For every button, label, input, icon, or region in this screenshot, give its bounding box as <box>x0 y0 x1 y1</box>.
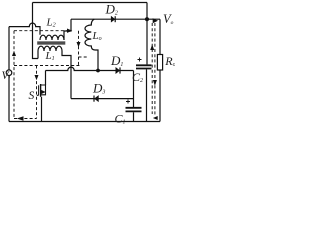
wire: node vertical S-drain junction down to D3 wire <box>70 71 72 99</box>
wire: top rail <box>33 2 148 4</box>
dashed loop left vertical <box>13 31 15 119</box>
dashed mid horizontal <box>14 65 81 67</box>
wire: left rail with source gap <box>8 27 10 122</box>
resistor R box branch <box>159 19 161 121</box>
junction dot node Lo/D1 <box>96 69 100 73</box>
svg-text:D1: D1 <box>110 53 123 68</box>
svg-text:L2: L2 <box>46 17 56 29</box>
arrow left right-bottom <box>153 116 158 120</box>
dashed loop top horizontal <box>14 30 67 32</box>
dashed current loops <box>14 23 155 119</box>
svg-text:Vo: Vo <box>163 12 174 26</box>
arrow right on top dashed <box>67 29 72 33</box>
wire: bottom rail <box>9 121 160 123</box>
arrow down right loop <box>153 80 157 86</box>
inductor L2 (top coil) <box>40 35 64 40</box>
svg-text:Vi: Vi <box>2 70 11 82</box>
arrow up right loop <box>150 45 154 51</box>
wire: D3 bottom diode wire <box>71 98 134 100</box>
diode D2 <box>111 16 115 22</box>
wire: top-left vertical from top rail corner down to L1 left <box>33 3 39 59</box>
dashed right loop verticals <box>152 23 155 116</box>
plus sign C2 <box>138 58 142 62</box>
dashed loop right vertical <box>78 31 80 66</box>
capacitor C2 <box>136 65 152 68</box>
core lines <box>37 42 65 44</box>
diode D3 <box>95 96 99 102</box>
wire: D2 top diode wire <box>71 18 160 20</box>
svg-text:L1: L1 <box>45 50 55 62</box>
svg-text:Lo: Lo <box>92 30 102 42</box>
transistor S (MOSFET) <box>40 84 42 97</box>
svg-text:D2: D2 <box>105 2 118 17</box>
arrow down on S dashed <box>35 75 39 80</box>
flag arrow top right <box>153 18 158 23</box>
capacitor C1 <box>133 71 135 108</box>
svg-text:Ro: Ro <box>164 54 175 68</box>
wire: top-right vertical to C2 <box>146 3 148 65</box>
dashed bottom horizontal <box>14 118 37 120</box>
wire: L2 right lead staircase up to D2 wire <box>64 19 71 40</box>
svg-text:S: S <box>29 90 35 102</box>
arrow down on x=76 dashed <box>77 42 81 47</box>
junction dot top-right <box>145 17 149 21</box>
arrow up on left dashed <box>12 51 16 56</box>
wire: L1 right lead down to node <box>62 51 71 71</box>
inductor Lo vertical coil <box>85 19 98 70</box>
wire: S drain vertical <box>45 71 47 86</box>
arrow left on bottom dashed <box>17 116 24 120</box>
svg-text:D3: D3 <box>92 81 105 96</box>
dashed S vertical <box>36 66 38 119</box>
dashed jog near Lo <box>79 56 89 58</box>
diode D1 <box>116 68 120 74</box>
wire: D1 anode wire with hop over node vertical <box>46 67 134 70</box>
wire: input top wire with hop over vertical <box>9 23 40 35</box>
svg-text:C1: C1 <box>115 112 126 126</box>
plus sign C1 <box>126 100 130 104</box>
svg-text:C2: C2 <box>132 70 143 84</box>
voltage source Vi circle <box>6 70 12 76</box>
inductor L1 (bottom coil) <box>38 46 62 51</box>
